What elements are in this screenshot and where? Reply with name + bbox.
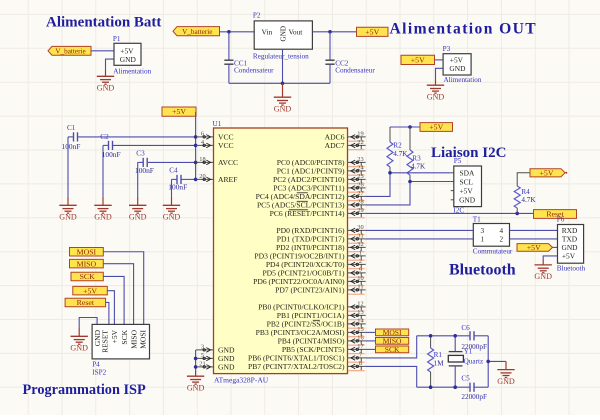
- pin 31 PD1: [277, 235, 345, 244]
- svg-text:ISP2: ISP2: [92, 369, 106, 377]
- svg-text:27: 27: [357, 190, 364, 197]
- svg-text:C1: C1: [67, 124, 76, 132]
- svg-text:SCL: SCL: [460, 177, 474, 186]
- wire +5V rail to R2 R3: [390, 126, 420, 128]
- svg-text:GND: GND: [70, 344, 88, 353]
- wire right rail: [487, 336, 489, 387]
- svg-text:Commutateur: Commutateur: [473, 247, 513, 255]
- ground for C1: [67, 197, 69, 205]
- svg-text:15: 15: [357, 326, 363, 333]
- svg-text:4.7K: 4.7K: [393, 150, 408, 158]
- svg-text:32: 32: [357, 241, 363, 248]
- wire +5V down to VCC pins: [195, 112, 197, 179]
- svg-text:Bluetooth: Bluetooth: [557, 264, 586, 272]
- resistor R3: [409, 127, 411, 150]
- svg-text:17: 17: [357, 343, 364, 350]
- wire Vout to +5V: [312, 31, 356, 33]
- wire MISO to P4: [103, 264, 133, 325]
- svg-text:12: 12: [357, 300, 363, 307]
- port +5V (R4 pullup): [530, 169, 565, 177]
- ground for P3: [435, 80, 437, 85]
- pin 12 PB0: [258, 303, 345, 312]
- ground for U1: [195, 371, 197, 376]
- node R3 top junction: [408, 125, 412, 129]
- crystal Y1: [454, 336, 456, 352]
- switch T1: [473, 224, 509, 247]
- svg-text:100nF: 100nF: [102, 150, 121, 159]
- port MOSI: [366, 331, 376, 333]
- svg-text:V_batterie: V_batterie: [182, 28, 212, 36]
- svg-text:GND: GND: [120, 55, 137, 64]
- svg-text:R3: R3: [412, 154, 421, 162]
- port +5V (I2C pullups): [420, 123, 453, 132]
- svg-text:28: 28: [357, 198, 363, 205]
- svg-text:+5V: +5V: [527, 243, 541, 252]
- pin 27 PC4: [256, 192, 345, 201]
- wire P2 GND pin down: [282, 49, 284, 83]
- node Vin junction: [227, 30, 231, 34]
- svg-text:MISO: MISO: [77, 259, 97, 268]
- wire PB6 to crystal: [366, 336, 417, 358]
- svg-text:GND: GND: [218, 363, 235, 372]
- pin 16 PB4: [278, 337, 345, 346]
- svg-text:GND: GND: [59, 213, 77, 222]
- pin 14 PB2: [267, 320, 345, 329]
- pin 1 PD3: [254, 252, 345, 261]
- node SCL junction: [408, 180, 412, 184]
- ground for C4: [171, 197, 173, 205]
- wire C1 to ground: [67, 137, 69, 197]
- svg-text:Alimentation OUT: Alimentation OUT: [390, 20, 538, 37]
- wire PD1 to T1: [366, 238, 474, 240]
- svg-text:RESET: RESET: [101, 330, 110, 353]
- svg-text:P6: P6: [557, 216, 565, 224]
- wire Reset to P4: [106, 302, 109, 324]
- wire RESET net: [366, 212, 534, 214]
- node SDA junction: [388, 171, 392, 175]
- svg-text:T1: T1: [473, 216, 481, 224]
- svg-text:GND: GND: [163, 213, 181, 222]
- svg-text:8: 8: [359, 360, 362, 367]
- pin 13 PB1: [277, 311, 345, 320]
- port V_batterie (to regulator): [173, 27, 220, 36]
- connector P6: [558, 225, 584, 264]
- pin 30 PD0: [276, 226, 345, 235]
- svg-text:AREF: AREF: [218, 175, 237, 184]
- svg-text:V_batterie: V_batterie: [55, 47, 85, 55]
- svg-text:Condensateur: Condensateur: [234, 67, 274, 75]
- svg-text:22: 22: [357, 139, 363, 146]
- svg-text:Liaison I2C: Liaison I2C: [431, 145, 506, 161]
- svg-text:+5V: +5V: [110, 329, 119, 343]
- port Reset (ISP): [65, 298, 106, 307]
- svg-text:30: 30: [357, 224, 363, 231]
- ground for C3: [137, 197, 139, 205]
- svg-text:GND: GND: [187, 384, 205, 393]
- pin 4 VCC: [218, 141, 234, 150]
- pin 21 GND: [218, 363, 235, 372]
- port V_batterie (P1): [48, 46, 91, 55]
- node ground bus junction: [281, 82, 285, 86]
- svg-text:3: 3: [201, 343, 204, 350]
- node crystal rail junctions: [429, 334, 433, 338]
- pin 25 PC2: [273, 175, 345, 184]
- svg-text:25: 25: [357, 173, 363, 180]
- resistor R2: [389, 127, 391, 142]
- wire +5V to P3: [435, 59, 444, 61]
- svg-text:P4: P4: [92, 360, 100, 368]
- svg-text:100nF: 100nF: [62, 142, 81, 151]
- svg-text:GND: GND: [97, 84, 115, 93]
- svg-text:P2: P2: [253, 12, 261, 20]
- node rail ground junction: [486, 360, 490, 364]
- svg-text:23: 23: [357, 156, 363, 163]
- port +5V (P3): [401, 55, 435, 64]
- svg-text:+5V: +5V: [429, 123, 443, 132]
- svg-text:9: 9: [359, 266, 362, 273]
- svg-text:13: 13: [357, 309, 363, 316]
- wire +5V to P6: [553, 246, 558, 248]
- pin 17 PB5: [282, 345, 345, 354]
- svg-text:+5V: +5V: [172, 107, 186, 116]
- svg-text:PD7 (PCINT23/AIN1): PD7 (PCINT23/AIN1): [275, 286, 345, 295]
- svg-text:C4: C4: [169, 166, 178, 174]
- wire P3 GND pin: [436, 68, 444, 80]
- svg-text:SCK: SCK: [385, 345, 400, 354]
- svg-text:P3: P3: [443, 45, 451, 53]
- svg-text:MISO: MISO: [129, 329, 138, 348]
- pin 32 PD2: [276, 243, 345, 252]
- svg-text:SCK: SCK: [120, 329, 129, 344]
- pin 10 PD6: [253, 277, 345, 286]
- wire SCK to P4: [103, 276, 124, 324]
- svg-text:2: 2: [500, 236, 504, 244]
- pin 5 GND: [218, 354, 235, 363]
- svg-text:Vout: Vout: [289, 27, 304, 36]
- svg-text:1M: 1M: [434, 359, 445, 367]
- svg-text:29: 29: [357, 207, 363, 214]
- connector P3: [443, 54, 471, 75]
- port SCK (ISP): [71, 272, 103, 281]
- svg-text:R2: R2: [393, 142, 402, 150]
- pin 9 PD5: [262, 269, 345, 278]
- svg-text:AVCC: AVCC: [218, 158, 238, 167]
- pin 6 VCC: [218, 133, 234, 142]
- svg-text:18: 18: [199, 156, 205, 163]
- svg-text:Alimentation: Alimentation: [444, 76, 482, 84]
- svg-text:1: 1: [481, 236, 485, 244]
- svg-text:21: 21: [199, 360, 205, 367]
- wire SCL net: [366, 182, 451, 205]
- svg-text:Bluetooth: Bluetooth: [449, 262, 516, 279]
- svg-text:24: 24: [357, 164, 364, 171]
- svg-text:Vin: Vin: [262, 27, 273, 36]
- svg-text:4.7K: 4.7K: [521, 196, 536, 204]
- svg-text:3: 3: [481, 227, 485, 235]
- wire PD0 to T1: [366, 229, 474, 231]
- svg-text:+5V: +5V: [562, 252, 576, 261]
- wire C2 to ground: [102, 145, 104, 197]
- svg-text:Y1: Y1: [464, 347, 473, 355]
- capacitor C4: [172, 178, 177, 180]
- svg-text:GND: GND: [534, 272, 552, 281]
- svg-text:ADC7: ADC7: [325, 141, 345, 150]
- pin 29 PC6: [270, 209, 345, 218]
- pin 2 PD4: [266, 260, 345, 269]
- svg-text:+5V: +5V: [540, 168, 554, 177]
- svg-text:1: 1: [359, 249, 362, 256]
- svg-text:P1: P1: [113, 35, 121, 43]
- wire V_batterie to P1: [91, 50, 114, 52]
- svg-text:Quartz: Quartz: [464, 358, 484, 366]
- svg-text:Reset: Reset: [77, 298, 95, 307]
- wire crystal bottom rail: [417, 386, 470, 388]
- wire C3 to ground: [137, 162, 139, 197]
- svg-text:19: 19: [357, 130, 363, 137]
- node VCC junctions: [194, 135, 198, 139]
- svg-text:GND: GND: [94, 213, 112, 222]
- svg-text:+5V: +5V: [83, 286, 97, 295]
- pin 15 PB3: [256, 328, 345, 337]
- connector P5: [454, 166, 482, 207]
- svg-text:R1: R1: [434, 351, 443, 359]
- wire rail to ground: [488, 360, 506, 362]
- port SCK: [366, 348, 376, 350]
- svg-text:22000pF: 22000pF: [461, 393, 487, 401]
- ground for crystal: [505, 361, 507, 369]
- svg-text:VCC: VCC: [218, 141, 234, 150]
- svg-text:P5: P5: [454, 157, 462, 165]
- wire regulator ground bus: [229, 82, 330, 84]
- port +5V (chip VCC): [162, 107, 196, 116]
- ground for P4: [78, 328, 80, 336]
- wire T1 to P6 TXD: [510, 238, 558, 240]
- wire V_batterie to Vin: [220, 31, 255, 33]
- wire chip GND pins to ground: [195, 350, 197, 371]
- pin 7 PB6: [248, 354, 345, 363]
- capacitor CC2: [329, 32, 331, 60]
- svg-text:GND: GND: [129, 213, 147, 222]
- svg-text:C3: C3: [136, 150, 145, 158]
- pin 23 PC0: [277, 158, 345, 167]
- svg-text:Programmation ISP: Programmation ISP: [23, 382, 147, 398]
- svg-text:SDA: SDA: [460, 169, 475, 178]
- port Reset: [534, 210, 577, 219]
- svg-text:4: 4: [500, 227, 504, 235]
- svg-text:Alimentation Batt: Alimentation Batt: [46, 15, 161, 31]
- pin 20 AREF: [218, 175, 237, 184]
- svg-text:ATmega328P-AU: ATmega328P-AU: [214, 376, 269, 385]
- svg-text:20: 20: [199, 173, 205, 180]
- node Vout junction: [328, 30, 332, 34]
- wire MOSI to P4: [103, 252, 143, 325]
- svg-text:C2: C2: [100, 133, 109, 141]
- pin 18 AVCC: [218, 158, 238, 167]
- ground for P1: [105, 71, 107, 77]
- resistor R4: [517, 173, 530, 186]
- svg-text:5: 5: [201, 352, 204, 359]
- pin 26 PC3: [273, 184, 345, 193]
- svg-text:+5V: +5V: [365, 27, 379, 36]
- svg-text:100nF: 100nF: [168, 183, 187, 192]
- svg-text:10: 10: [357, 275, 363, 282]
- svg-text:31: 31: [357, 232, 363, 239]
- svg-text:2: 2: [359, 258, 362, 265]
- pin 11 PD7: [275, 286, 345, 295]
- svg-text:PC6 (RESET/PCINT14): PC6 (RESET/PCINT14): [270, 209, 345, 218]
- op-amp U1 ATmega328P-AU body: [214, 128, 348, 374]
- capacitor C6: [469, 331, 471, 340]
- pin 3 GND: [218, 346, 235, 355]
- port +5V (regulator out): [357, 27, 389, 36]
- svg-text:100nF: 100nF: [135, 166, 154, 175]
- svg-text:11: 11: [357, 283, 363, 290]
- capacitor C3: [138, 161, 143, 163]
- svg-text:MOSI: MOSI: [77, 247, 97, 256]
- wire crystal top rail: [417, 335, 470, 337]
- svg-text:GND: GND: [497, 377, 515, 386]
- svg-text:GND: GND: [427, 93, 445, 102]
- svg-text:C5: C5: [461, 374, 470, 382]
- pin 8 PB7: [248, 362, 345, 371]
- svg-text:GND: GND: [459, 196, 476, 205]
- port MOSI (ISP): [70, 248, 104, 257]
- pin 24 PC1: [277, 167, 345, 176]
- pin 19 ADC6: [325, 133, 345, 142]
- capacitor C5: [469, 383, 471, 392]
- svg-text:GND: GND: [280, 26, 288, 42]
- capacitor C2: [103, 144, 108, 146]
- svg-text:Alimentation: Alimentation: [113, 67, 151, 75]
- ground for C2: [102, 197, 104, 205]
- wire C4 to ground: [171, 179, 173, 197]
- svg-text:SCK: SCK: [80, 272, 96, 281]
- regulator P2: [254, 21, 312, 49]
- svg-text:6: 6: [201, 130, 204, 137]
- connector P1: [114, 43, 141, 65]
- svg-text:26: 26: [357, 181, 363, 188]
- svg-text:R4: R4: [521, 188, 530, 196]
- wire P4 GND pin to ground: [79, 318, 97, 329]
- svg-text:Regulateur_tension: Regulateur_tension: [253, 52, 309, 60]
- node R4 bottom junction: [515, 212, 519, 216]
- port MISO (ISP): [70, 259, 104, 268]
- svg-text:GND: GND: [449, 64, 466, 73]
- svg-text:GND: GND: [274, 105, 292, 114]
- pin 22 ADC7: [325, 141, 345, 150]
- port +5V (Bluetooth): [517, 244, 553, 252]
- svg-text:+5V: +5V: [411, 56, 425, 65]
- wire +5V to P4: [107, 291, 114, 325]
- wire T1 to P6 RXD: [510, 229, 558, 231]
- ground for P6: [542, 260, 544, 265]
- wire PB7 to crystal: [366, 366, 417, 387]
- svg-text:16: 16: [357, 334, 363, 341]
- ground for P2: [282, 83, 284, 97]
- svg-text:PB7 (PCINT7/XTAL2/TOSC2): PB7 (PCINT7/XTAL2/TOSC2): [248, 362, 345, 371]
- capacitor CC1: [228, 32, 230, 60]
- port MISO: [366, 340, 376, 342]
- svg-text:4.7K: 4.7K: [411, 163, 426, 171]
- svg-text:14: 14: [357, 317, 364, 324]
- port +5V (ISP): [73, 286, 108, 295]
- svg-text:Condensateur: Condensateur: [335, 67, 375, 75]
- pin 28 PC5: [257, 201, 345, 210]
- svg-text:+5V: +5V: [460, 186, 474, 195]
- wire P1 GND pin: [106, 59, 115, 70]
- wire P6 +5V pin to ground: [543, 256, 557, 260]
- svg-text:C6: C6: [461, 324, 470, 332]
- capacitor C1: [68, 136, 73, 138]
- svg-text:U1: U1: [213, 120, 222, 128]
- connector P4 ISP: [92, 324, 149, 359]
- wire SDA net: [366, 173, 451, 197]
- svg-text:MOSI: MOSI: [139, 330, 148, 349]
- resistor R1: [430, 336, 432, 348]
